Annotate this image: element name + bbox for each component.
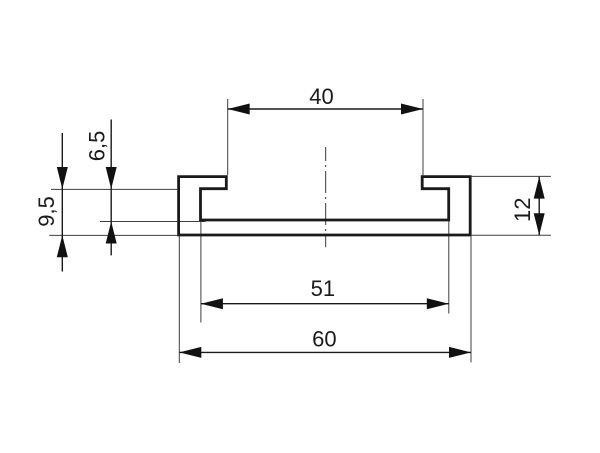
svg-text:40: 40 xyxy=(309,84,333,109)
svg-text:12: 12 xyxy=(510,198,535,222)
svg-text:9,5: 9,5 xyxy=(34,196,59,227)
svg-text:51: 51 xyxy=(311,276,335,301)
svg-text:6,5: 6,5 xyxy=(85,131,110,162)
svg-text:60: 60 xyxy=(312,326,336,351)
